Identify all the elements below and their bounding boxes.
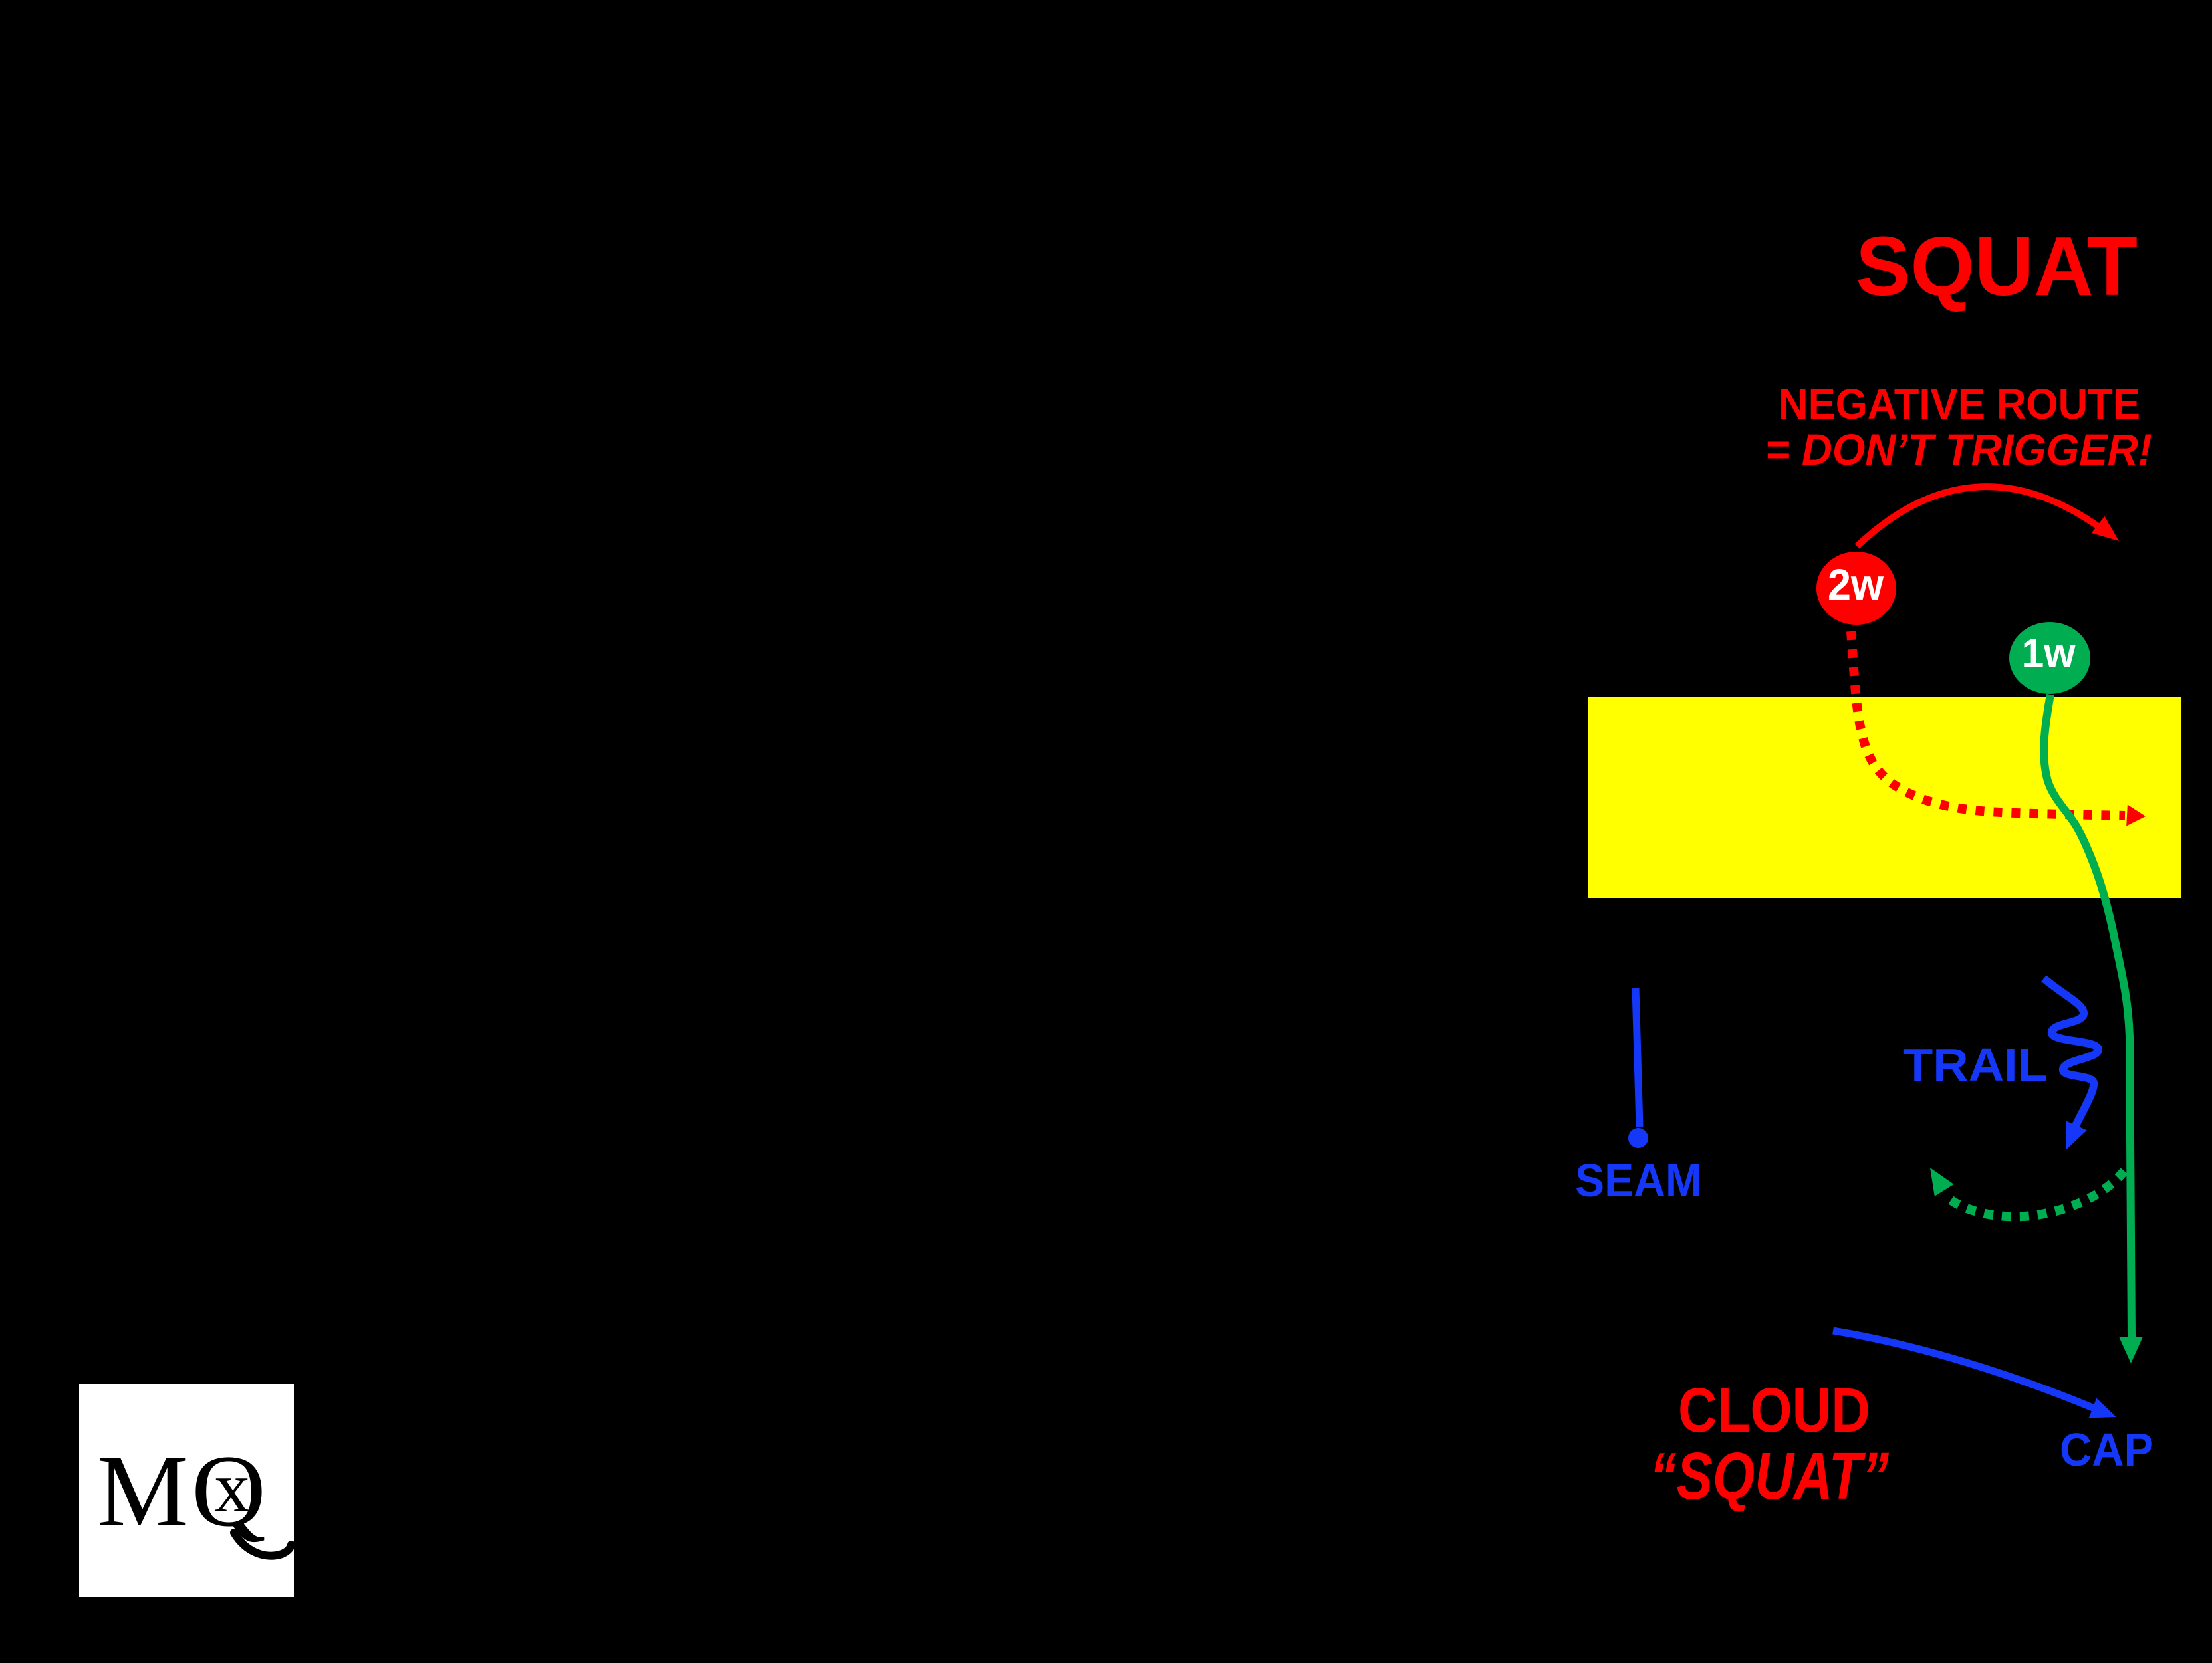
red dotted squat route xyxy=(1851,631,2125,816)
blue cap arrow curve xyxy=(1833,1331,2094,1408)
red dotted route arrowhead xyxy=(2126,805,2146,827)
blue cap arrowhead xyxy=(2089,1398,2120,1426)
svg-text:CLOUD: CLOUD xyxy=(1678,1375,1870,1446)
svg-text:M: M xyxy=(97,1434,189,1548)
blue trail squiggle xyxy=(2044,978,2098,1131)
svg-text:TRAIL: TRAIL xyxy=(1903,1039,2048,1091)
blue seam dot xyxy=(1628,1128,1648,1148)
svg-text:1w: 1w xyxy=(2022,631,2076,677)
svg-text:x: x xyxy=(214,1448,250,1527)
svg-text:SEAM: SEAM xyxy=(1575,1155,1702,1206)
green dotted arc arrowhead xyxy=(1921,1162,1954,1196)
receiver 2w circle xyxy=(1816,552,1896,625)
yellow zone rectangle xyxy=(1588,697,2181,898)
blue seam line xyxy=(1636,988,1640,1127)
green dotted comeback arc xyxy=(1949,1171,2124,1216)
svg-text:SQUAT: SQUAT xyxy=(1856,219,2138,313)
receiver 1w circle xyxy=(2009,622,2090,694)
blue trail arrowhead xyxy=(2055,1121,2086,1155)
svg-text:2w: 2w xyxy=(1828,560,1884,609)
svg-text:= DON’T TRIGGER!: = DON’T TRIGGER! xyxy=(1765,425,2152,474)
svg-text:CAP: CAP xyxy=(2060,1424,2153,1476)
MQx logo white square xyxy=(79,1384,294,1597)
svg-text:“SQUAT”: “SQUAT” xyxy=(1650,1439,1889,1513)
MQx logo Q swash tail xyxy=(234,1533,291,1556)
svg-text:NEGATIVE ROUTE: NEGATIVE ROUTE xyxy=(1779,380,2140,428)
green 1w route (solid) xyxy=(2044,695,2132,1337)
red negative-route arc arrow (solid) xyxy=(1857,487,2101,546)
red arc arrowhead xyxy=(2092,516,2126,550)
green route arrowhead xyxy=(2119,1337,2143,1363)
